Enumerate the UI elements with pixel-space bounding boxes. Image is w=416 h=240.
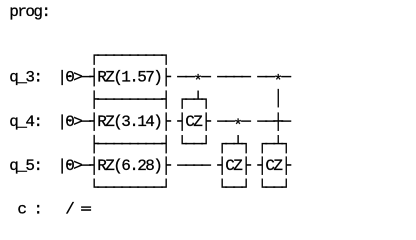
svg-text:|0>: |0> — [57, 69, 83, 87]
svg-text:q_5:: q_5: — [9, 157, 43, 175]
svg-text:|0>: |0> — [57, 157, 83, 175]
svg-text:└──┘: └──┘ — [257, 178, 291, 197]
svg-text:┤CZ├: ┤CZ├ — [176, 112, 211, 131]
svg-text:═: ═ — [80, 200, 91, 218]
svg-text:┌─┴┐: ┌─┴┐ — [217, 134, 251, 154]
svg-text:│: │ — [273, 89, 283, 108]
svg-text:└──┘: └──┘ — [217, 178, 251, 197]
svg-text:├────────┤: ├────────┤ — [89, 134, 171, 153]
svg-text:┤RZ(1.57)├: ┤RZ(1.57)├ — [88, 68, 171, 87]
svg-text:/: / — [65, 200, 75, 218]
svg-text:|0>: |0> — [57, 113, 83, 131]
svg-text:┤CZ├: ┤CZ├ — [216, 156, 251, 175]
svg-text:q_3:: q_3: — [9, 69, 43, 87]
svg-text:┌─┴┐: ┌─┴┐ — [177, 90, 211, 110]
svg-text:*: * — [273, 72, 283, 90]
svg-text:┤CZ├: ┤CZ├ — [256, 156, 291, 175]
svg-text:──┼─: ──┼─ — [256, 112, 291, 131]
svg-text:*: * — [233, 117, 243, 135]
svg-text:┤RZ(6.28)├: ┤RZ(6.28)├ — [88, 156, 171, 175]
svg-text:────: ──── — [216, 69, 251, 87]
svg-text:└──┘: └──┘ — [177, 134, 211, 153]
svg-text:└────────┘: └────────┘ — [89, 178, 171, 197]
svg-text:*: * — [193, 72, 203, 90]
svg-text:┌─┴┐: ┌─┴┐ — [257, 134, 291, 154]
svg-text:├────────┤: ├────────┤ — [89, 90, 171, 109]
svg-text:prog:: prog: — [9, 3, 51, 21]
svg-text:┌────────┐: ┌────────┐ — [89, 47, 171, 66]
svg-text:────: ──── — [176, 157, 211, 175]
svg-text:┤RZ(3.14)├: ┤RZ(3.14)├ — [88, 112, 171, 131]
svg-text:q_4:: q_4: — [9, 113, 43, 131]
